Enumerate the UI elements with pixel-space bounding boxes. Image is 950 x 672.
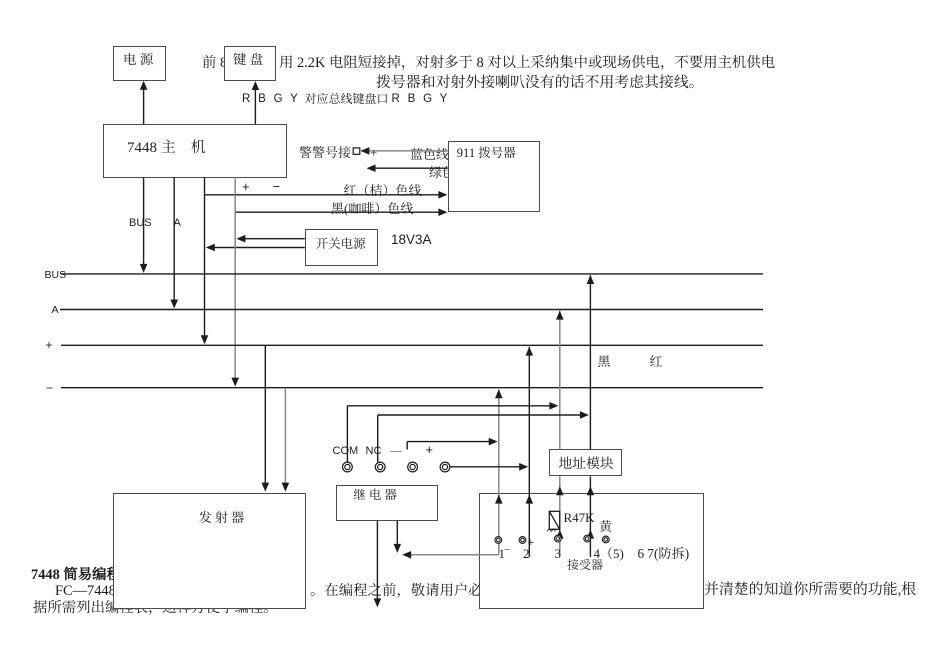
resistor R47K diagonal — [549, 511, 559, 529]
wire host plus drop — [204, 177, 206, 339]
label 18V3A — [391, 232, 432, 248]
terminal 4 — [584, 535, 591, 542]
wire minus rail — [61, 387, 763, 389]
text note line2 — [376, 74, 704, 90]
label A rail — [52, 303, 59, 319]
wire red-orange to dialer — [205, 194, 443, 196]
label green wire — [429, 164, 455, 180]
text paragraph middle — [310, 582, 511, 598]
wire plus rail — [61, 344, 763, 346]
wire relay lead right — [396, 521, 398, 547]
box transmitter 发射器 — [113, 493, 307, 609]
label black wire 黑 — [598, 353, 611, 369]
box keypad 键盘 — [224, 46, 276, 82]
wire minus terminal to receiver t1 wire — [407, 441, 491, 443]
arrow up at A rail — [556, 311, 564, 320]
wire A rail to address module (gray) — [559, 311, 561, 450]
arrow black wire right — [438, 208, 447, 216]
terminal NC — [375, 462, 385, 472]
arrow into keypad box — [252, 81, 260, 90]
box 7448 host 主机 — [103, 124, 287, 178]
wire receiver t1 to relay (gray) — [409, 554, 499, 556]
wire host BUS drop — [143, 177, 145, 267]
label red-orange wire — [344, 182, 422, 198]
label pin 2 — [523, 545, 530, 561]
text RBGY letters right — [392, 92, 450, 106]
terminal 3 — [554, 535, 561, 542]
wire PSU output 2 — [212, 247, 305, 249]
arrow up above terminal 4 — [587, 530, 595, 539]
terminal COM — [343, 462, 353, 472]
arrow A drop down — [170, 300, 178, 309]
label yellow 黄 — [599, 518, 612, 534]
wire relay lead left (long) — [376, 521, 378, 602]
wire COM to black wire — [347, 405, 552, 407]
text note line1 — [279, 54, 775, 70]
arrow relay lead left down — [374, 598, 382, 607]
box 911 dialer — [448, 141, 540, 212]
arrow BUS drop down — [140, 264, 148, 273]
text paragraph line3 — [33, 599, 278, 615]
wire A rail — [60, 309, 763, 311]
label NC — [366, 444, 382, 460]
wire host to power-box — [143, 84, 145, 124]
arrow COM right — [549, 402, 558, 410]
text heading 7448 programming (bold) — [31, 566, 150, 582]
label A mid drop — [174, 216, 181, 232]
arrow up into address module left — [556, 486, 564, 495]
label plus under host — [242, 179, 250, 195]
label R47K — [564, 509, 595, 525]
box address module 地址模块 — [549, 449, 622, 476]
label pin 4 (5) — [594, 545, 624, 561]
label pin 6 7 anti-tamper — [638, 545, 690, 561]
wire NC to red wire — [378, 414, 583, 416]
arrow up at plus rail t2 — [526, 347, 534, 356]
arrow into power box — [140, 81, 148, 90]
wire BUS rail — [61, 273, 763, 275]
label BUS rail — [45, 268, 67, 284]
box relay 继电器 — [336, 485, 439, 521]
label COM — [333, 444, 359, 460]
wire minus rail to receiver terminal 1 (gray) — [498, 390, 500, 555]
label receiver 接受器 — [567, 557, 603, 573]
arrow into transmitter 1 — [262, 483, 270, 492]
resistor R47K body — [549, 511, 559, 529]
wire NC riser — [377, 415, 379, 462]
wire host A drop — [173, 177, 175, 303]
arrow plus drop down — [201, 335, 209, 344]
label minus under host — [273, 179, 281, 195]
label plus rail — [46, 338, 53, 354]
wire address module to terminal 4 — [589, 476, 591, 557]
connector square (horn port) — [353, 148, 360, 154]
label pin 1 — [499, 545, 506, 561]
wire minus rail to transmitter (gray) — [284, 388, 286, 486]
arrow relay lead right down — [394, 544, 402, 553]
arrow blue wire left — [360, 147, 369, 155]
terminal plus — [440, 462, 450, 472]
text note line1 left fragment — [202, 54, 227, 70]
resistor R47K bottom tick — [547, 529, 556, 532]
arrow green wire left — [367, 164, 376, 172]
box power supply 电源 — [113, 46, 167, 82]
arrow left to relay — [402, 551, 411, 559]
wire address module to terminal 3 (gray) — [559, 476, 561, 556]
label pin 3 — [555, 545, 562, 561]
label black-coffee wire — [331, 200, 413, 216]
terminal yellow — [602, 536, 609, 543]
label BUS mid drop — [129, 216, 152, 232]
terminal 2 — [519, 537, 526, 544]
arrow red wire right — [438, 191, 447, 199]
arrow PSU output 1 left — [236, 235, 245, 243]
arrow up at minus rail t1 — [495, 389, 503, 398]
arrow up at BUS rail — [587, 275, 595, 284]
box receiver 接受器 — [479, 493, 704, 609]
wire COM riser — [346, 406, 348, 462]
arrow PSU output 2 left — [206, 244, 215, 252]
terminal minus — [408, 462, 418, 472]
wire green (dialer, second) — [373, 167, 448, 169]
box switching PSU 开关电源 — [305, 229, 378, 266]
arrow up below receiver top t2 — [526, 495, 534, 504]
wire plus rail to transmitter — [264, 345, 266, 486]
wire plus rail to receiver terminal 2 — [528, 347, 530, 557]
label red wire 红 — [650, 353, 663, 369]
label minus rail — [46, 381, 53, 397]
arrow minus drop down — [231, 378, 239, 387]
label plus terminal — [426, 442, 434, 458]
text RBGY letters left — [242, 92, 300, 106]
arrow into transmitter 2 — [282, 483, 290, 492]
arrow minus step right — [489, 438, 498, 446]
arrow up above terminal 3 — [556, 530, 564, 539]
arrow up below receiver top t1 — [495, 495, 503, 504]
text paragraph FC-7448 — [55, 582, 191, 598]
wire host to keypad-box — [254, 85, 256, 125]
wire BUS rail to address module — [589, 275, 591, 449]
wire PSU output 1 — [242, 238, 305, 240]
label minus terminal — [391, 443, 402, 459]
label terminal minus small — [505, 541, 511, 557]
terminal 1 — [495, 537, 502, 544]
wire plus terminal to receiver t2 wire — [450, 466, 522, 468]
label horn port 警警号接口 — [299, 144, 351, 160]
label terminal plus small — [528, 534, 535, 550]
wire black-coffee to dialer — [235, 211, 442, 213]
arrow plus lead right — [519, 463, 528, 471]
text paragraph right — [704, 581, 916, 597]
arrow NC right — [580, 411, 589, 419]
label blue wire — [410, 146, 449, 162]
label plus after horn arrow — [370, 145, 377, 161]
wire host minus drop (gray) — [234, 177, 236, 381]
arrow up into address module right — [587, 486, 595, 495]
text RBGY mapping cjk — [305, 92, 389, 106]
wire blue (dialer to horn port) — [365, 150, 448, 152]
wire minus terminal step up — [406, 442, 408, 450]
